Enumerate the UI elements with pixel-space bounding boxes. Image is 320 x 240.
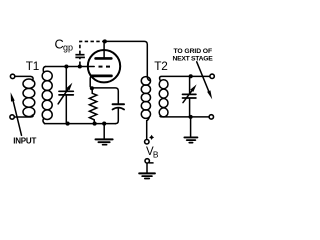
svg-text:INPUT: INPUT	[13, 137, 36, 146]
svg-text:T1: T1	[26, 59, 39, 73]
svg-text:TO GRID OF: TO GRID OF	[174, 48, 213, 55]
svg-text:T2: T2	[154, 59, 167, 73]
svg-text:NEXT STAGE: NEXT STAGE	[173, 55, 214, 62]
svg-text:gp: gp	[63, 42, 73, 52]
svg-text:B: B	[153, 150, 159, 160]
